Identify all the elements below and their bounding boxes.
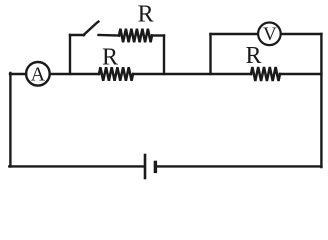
svg-text:R: R: [245, 43, 261, 69]
svg-text:A: A: [31, 64, 46, 86]
wire: main wire J2 to J3 between resistors: [133, 73, 251, 75]
wire: left vertical side: [9, 73, 11, 166]
resistor R3 (right, parallel with voltmeter): [251, 67, 280, 81]
resistor R1 (top left branch): [119, 29, 152, 43]
switch S1 blade: [84, 22, 99, 35]
battery BT1 long plate: [144, 155, 147, 178]
svg-text:V: V: [263, 24, 277, 45]
wire: voltmeter to right corner: [282, 33, 322, 35]
wire: left lead to ammeter: [10, 73, 26, 75]
svg-text:R: R: [138, 2, 154, 28]
wire: right resistor to right side: [280, 73, 321, 75]
wire: top resistor to corner: [152, 34, 164, 36]
wire: battery to bottom right corner: [157, 165, 322, 167]
voltmeter V1 circle: [258, 23, 281, 46]
ammeter A1 circle: [26, 62, 50, 86]
wire: right loop left vertical: [209, 34, 211, 74]
wire: switch left lead: [70, 34, 84, 36]
wire: right loop to voltmeter: [211, 33, 258, 35]
switch S1 right lead: [99, 34, 120, 37]
wire: bottom left to battery: [9, 165, 143, 167]
svg-text:R: R: [102, 44, 118, 70]
wire: ammeter to junction J1 (main wire): [50, 73, 99, 75]
wire: right vertical side: [320, 34, 322, 167]
wire: left loop right vertical: [163, 36, 165, 75]
battery BT1 short plate: [154, 162, 157, 171]
resistor R2 (main wire, bottom of left loop): [99, 67, 133, 81]
wire: left loop left vertical: [69, 35, 71, 74]
